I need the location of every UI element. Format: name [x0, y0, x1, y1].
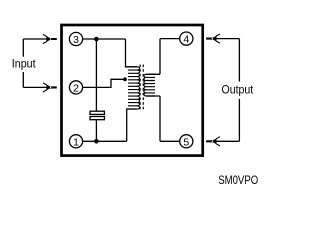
node junction at pin3 wire	[94, 37, 99, 42]
pin 5	[180, 135, 193, 148]
wire secondary top lead / pin 4	[146, 39, 180, 75]
svg-text:Output: Output	[222, 83, 254, 97]
output bracket wire	[216, 39, 239, 142]
pin 3	[69, 32, 82, 45]
svg-text:1: 1	[73, 136, 79, 148]
input arrow bottom	[43, 83, 57, 92]
input bracket wire	[23, 39, 47, 87]
svg-text:5: 5	[183, 136, 189, 148]
wire capacitor to pin1 rail	[95, 120, 97, 142]
transformer T1 primary winding	[128, 67, 140, 109]
wire primary bottom lead	[127, 109, 137, 141]
transformer T1 secondary winding	[144, 74, 155, 96]
wire primary top lead	[126, 39, 137, 67]
svg-text:3: 3	[73, 34, 79, 46]
node tap dot	[123, 77, 127, 81]
module outline box	[62, 25, 203, 156]
Input label	[10, 57, 39, 72]
capacitor C1 bottom plate	[90, 117, 104, 120]
svg-text:SM0VPO: SM0VPO	[218, 173, 258, 187]
output arrow bottom	[206, 137, 220, 146]
svg-text:Input: Input	[12, 56, 36, 70]
pin 3 wire	[83, 38, 126, 40]
pin 1	[69, 135, 82, 148]
pin 4	[180, 32, 193, 45]
pin 2 wire to tap	[83, 79, 127, 87]
pin 1 wire	[83, 140, 127, 142]
svg-text:2: 2	[73, 82, 79, 94]
node junction at pin1 wire	[94, 139, 99, 144]
Output label	[220, 82, 256, 99]
wire secondary bottom lead / pin 5	[146, 96, 180, 141]
pin 2	[69, 81, 82, 94]
svg-text:4: 4	[183, 34, 189, 46]
output arrow top	[206, 34, 220, 43]
capacitor C1 top plate	[90, 111, 104, 114]
input arrow top	[43, 34, 57, 43]
wire junction to capacitor	[95, 39, 97, 111]
transformer core	[140, 65, 143, 112]
